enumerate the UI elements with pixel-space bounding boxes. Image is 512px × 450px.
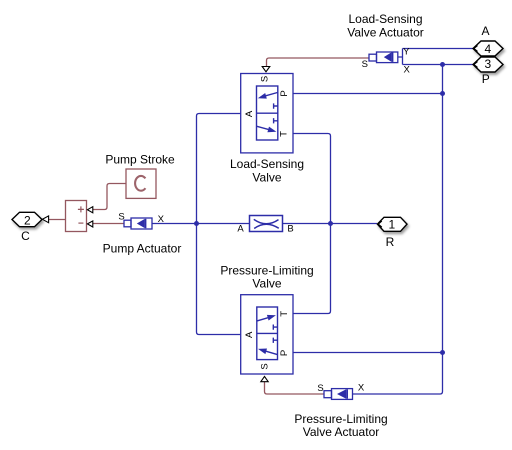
svg-text:Load-Sensing: Load-Sensing xyxy=(230,157,304,171)
actuator block: Pump Actuator xyxy=(118,212,164,230)
svg-text:T: T xyxy=(279,311,290,317)
svg-text:1: 1 xyxy=(388,217,395,231)
svg-text:P: P xyxy=(279,90,290,96)
svg-text:X: X xyxy=(358,383,365,394)
wire pump actuator S to sum minus input xyxy=(93,223,124,225)
port triangle at port 2 xyxy=(42,216,48,223)
port triangle sum minus input xyxy=(87,221,92,227)
wire LS actuator output bracket xyxy=(398,49,403,65)
svg-text:X: X xyxy=(158,214,165,225)
svg-text:A: A xyxy=(244,331,255,338)
svg-text:4: 4 xyxy=(484,42,491,56)
wire LS valve P to right trunk xyxy=(293,93,443,95)
svg-text:Pressure-Limiting: Pressure-Limiting xyxy=(220,264,313,278)
port triangle at LS valve S xyxy=(262,67,270,72)
valve block: Load-Sensing Valve xyxy=(241,74,293,153)
wire LS actuator S (brown physical signal) xyxy=(267,58,370,66)
port triangle sum plus input xyxy=(87,207,92,213)
svg-text:A: A xyxy=(237,223,244,234)
junction LS P wire xyxy=(440,91,445,96)
svg-text:S: S xyxy=(362,59,368,70)
port 1 hexagon (R) xyxy=(377,217,407,231)
svg-text:B: B xyxy=(287,223,293,234)
svg-text:Y: Y xyxy=(403,47,410,58)
port 4 hexagon (A) xyxy=(473,41,503,56)
wire Pump Stroke C to sum plus input xyxy=(93,184,126,210)
svg-text:X: X xyxy=(404,65,411,76)
svg-text:C: C xyxy=(21,229,30,243)
svg-text:Load-Sensing: Load-Sensing xyxy=(348,12,422,26)
svg-text:3: 3 xyxy=(484,57,491,71)
svg-text:Pump Actuator: Pump Actuator xyxy=(103,242,182,256)
wire right trunk down to PL actuator X xyxy=(353,65,443,395)
svg-text:Valve: Valve xyxy=(252,277,281,291)
wire PL valve P to right trunk xyxy=(293,352,443,354)
port 3 hexagon (P) xyxy=(473,57,503,72)
svg-text:Valve Actuator: Valve Actuator xyxy=(347,26,424,40)
actuator block: Pressure-Limiting Valve Actuator xyxy=(317,383,365,400)
svg-text:2: 2 xyxy=(24,214,31,228)
wire Y to port 4 xyxy=(403,48,474,50)
sum block: PS Subtract xyxy=(66,201,87,232)
svg-text:Valve Actuator: Valve Actuator xyxy=(303,425,380,439)
svg-text:Pump Stroke: Pump Stroke xyxy=(105,153,175,167)
wire X to port 3 xyxy=(403,64,474,66)
svg-text:A: A xyxy=(244,110,255,117)
wire sum output to port 2 xyxy=(49,219,66,221)
label Pressure-Limiting Valve Actuator xyxy=(294,412,387,439)
svg-text:S: S xyxy=(317,383,323,394)
orifice block (fixed orifice) xyxy=(237,216,293,235)
port 2 hexagon (C) xyxy=(12,212,42,226)
svg-text:P: P xyxy=(482,72,490,86)
wire LS valve T down to PL valve T xyxy=(293,134,331,314)
svg-text:T: T xyxy=(279,131,290,137)
svg-text:P: P xyxy=(279,350,290,356)
wire orifice B to port 1 xyxy=(283,223,378,225)
label Load-Sensing Valve Actuator xyxy=(347,12,424,40)
svg-text:S: S xyxy=(260,363,271,369)
actuator block: Load-Sensing Valve Actuator xyxy=(362,47,411,76)
junction at T trunk and main line xyxy=(328,221,333,226)
wire pump actuator X to orifice A (blue) xyxy=(152,223,250,225)
junction X wire top xyxy=(440,62,445,67)
svg-text:A: A xyxy=(481,24,489,38)
wire LS valve A / PL valve A vertical trunk xyxy=(197,114,241,335)
junction PL P wire xyxy=(440,350,445,355)
label Pressure-Limiting Valve xyxy=(220,264,313,291)
svg-text:Pressure-Limiting: Pressure-Limiting xyxy=(294,412,387,426)
valve block: Pressure-Limiting Valve xyxy=(241,295,293,374)
constant block: Pump Stroke (C) xyxy=(126,169,156,198)
label Load-Sensing Valve xyxy=(230,157,304,185)
wire PL actuator S to PL valve S xyxy=(265,382,325,394)
port triangle at PL valve S xyxy=(261,376,268,381)
svg-text:S: S xyxy=(260,76,271,82)
svg-text:Valve: Valve xyxy=(252,171,281,185)
svg-text:S: S xyxy=(118,212,124,223)
svg-text:R: R xyxy=(386,235,395,249)
junction at A trunk and main line xyxy=(194,221,199,226)
